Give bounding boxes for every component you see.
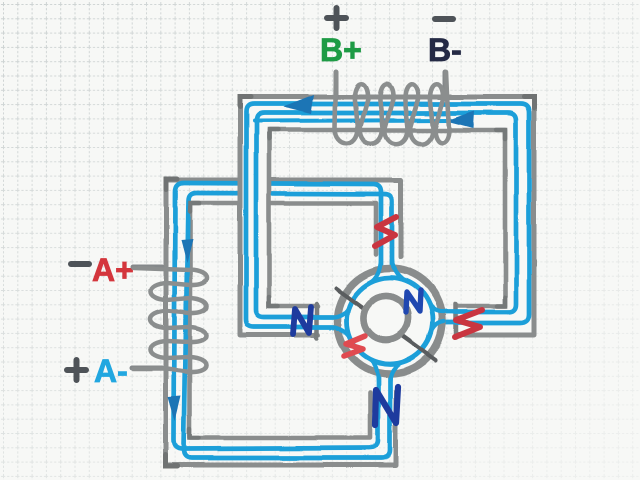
flux connectors at bottom pole [370, 359, 378, 381]
pole label S (top pole, red) [375, 217, 396, 246]
core loop A outer edge (stator iron path for phase A winding) [166, 180, 401, 465]
left pole face cap [315, 304, 320, 338]
corner ink marks [166, 97, 534, 466]
svg-text:B+: B+ [320, 32, 362, 68]
flux line A2 (outer) [184, 193, 392, 458]
terminal sign − (left of A+) [71, 261, 89, 267]
flux line B2 (outer) [246, 104, 529, 327]
lead B+ [334, 72, 339, 98]
rotor shaft [364, 296, 408, 340]
flux line A1 (inner) [174, 183, 381, 449]
right pole face cap [454, 304, 459, 338]
core loop A inner edge [190, 203, 376, 438]
core loop B outer edge [240, 97, 534, 335]
lead A+ [133, 265, 162, 270]
svg-text:B-: B- [428, 32, 462, 68]
rotor label N (navy) [406, 290, 421, 312]
flux arrow B left (leftward) [283, 95, 314, 114]
flux connectors at left pole [335, 301, 352, 341]
flux line B1 (inner) [256, 113, 516, 317]
lead B- [443, 72, 448, 88]
pole label N (left pole, navy) [293, 307, 311, 334]
flux arrow A bottom (downward) [168, 396, 181, 421]
rotor magnet axis line [336, 288, 436, 360]
lead A- [132, 366, 162, 371]
winding coil A (around left leg of core A) [133, 268, 207, 372]
flux connectors at right pole [428, 301, 444, 341]
pole label S (right pole, red) [455, 310, 482, 337]
flux line B3 (extra middle stroke) [254, 120, 450, 121]
flux arrow A top (downward) [181, 239, 193, 263]
terminal sign − (above B-) [435, 16, 453, 22]
rotor outer ring [338, 269, 443, 374]
core loop B inner edge [269, 130, 505, 306]
terminal sign + (above B+) [327, 8, 346, 28]
terminal sign + (left of A-) [67, 360, 86, 380]
flux connectors at top pole [370, 259, 381, 283]
svg-text:A-: A- [94, 353, 128, 389]
rotor label S (red) [344, 336, 365, 356]
winding coil B (around top leg of core B) [335, 72, 449, 144]
core loop B body (white band occluding loop A at crossing) [239, 96, 535, 336]
flux ring inside rotor [347, 278, 433, 364]
svg-text:A+: A+ [92, 252, 134, 288]
flux arrow B right (leftward) [446, 111, 474, 128]
rotor shaft rim redraw [364, 296, 408, 340]
pole label N (bottom pole, navy) [375, 387, 398, 425]
